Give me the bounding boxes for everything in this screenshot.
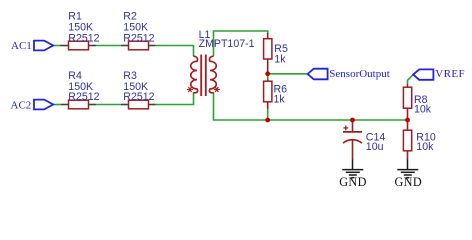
svg-text:GND: GND	[339, 175, 367, 189]
svg-text:10u: 10u	[366, 141, 384, 153]
svg-text:1k: 1k	[274, 93, 286, 105]
svg-text:AC2: AC2	[11, 100, 32, 112]
svg-text:ZMPT107-1: ZMPT107-1	[199, 38, 255, 50]
svg-text:R2512: R2512	[123, 33, 154, 45]
svg-text:R2512: R2512	[68, 91, 99, 103]
svg-text:10k: 10k	[414, 104, 432, 116]
svg-text:R2512: R2512	[68, 33, 99, 45]
svg-text:R2512: R2512	[123, 91, 154, 103]
svg-text:VREF: VREF	[435, 68, 465, 80]
svg-text:GND: GND	[394, 175, 422, 189]
svg-text:SensorOutput: SensorOutput	[329, 68, 390, 80]
svg-text:AC1: AC1	[11, 40, 32, 52]
svg-text:1k: 1k	[274, 53, 286, 65]
svg-text:10k: 10k	[416, 141, 434, 153]
